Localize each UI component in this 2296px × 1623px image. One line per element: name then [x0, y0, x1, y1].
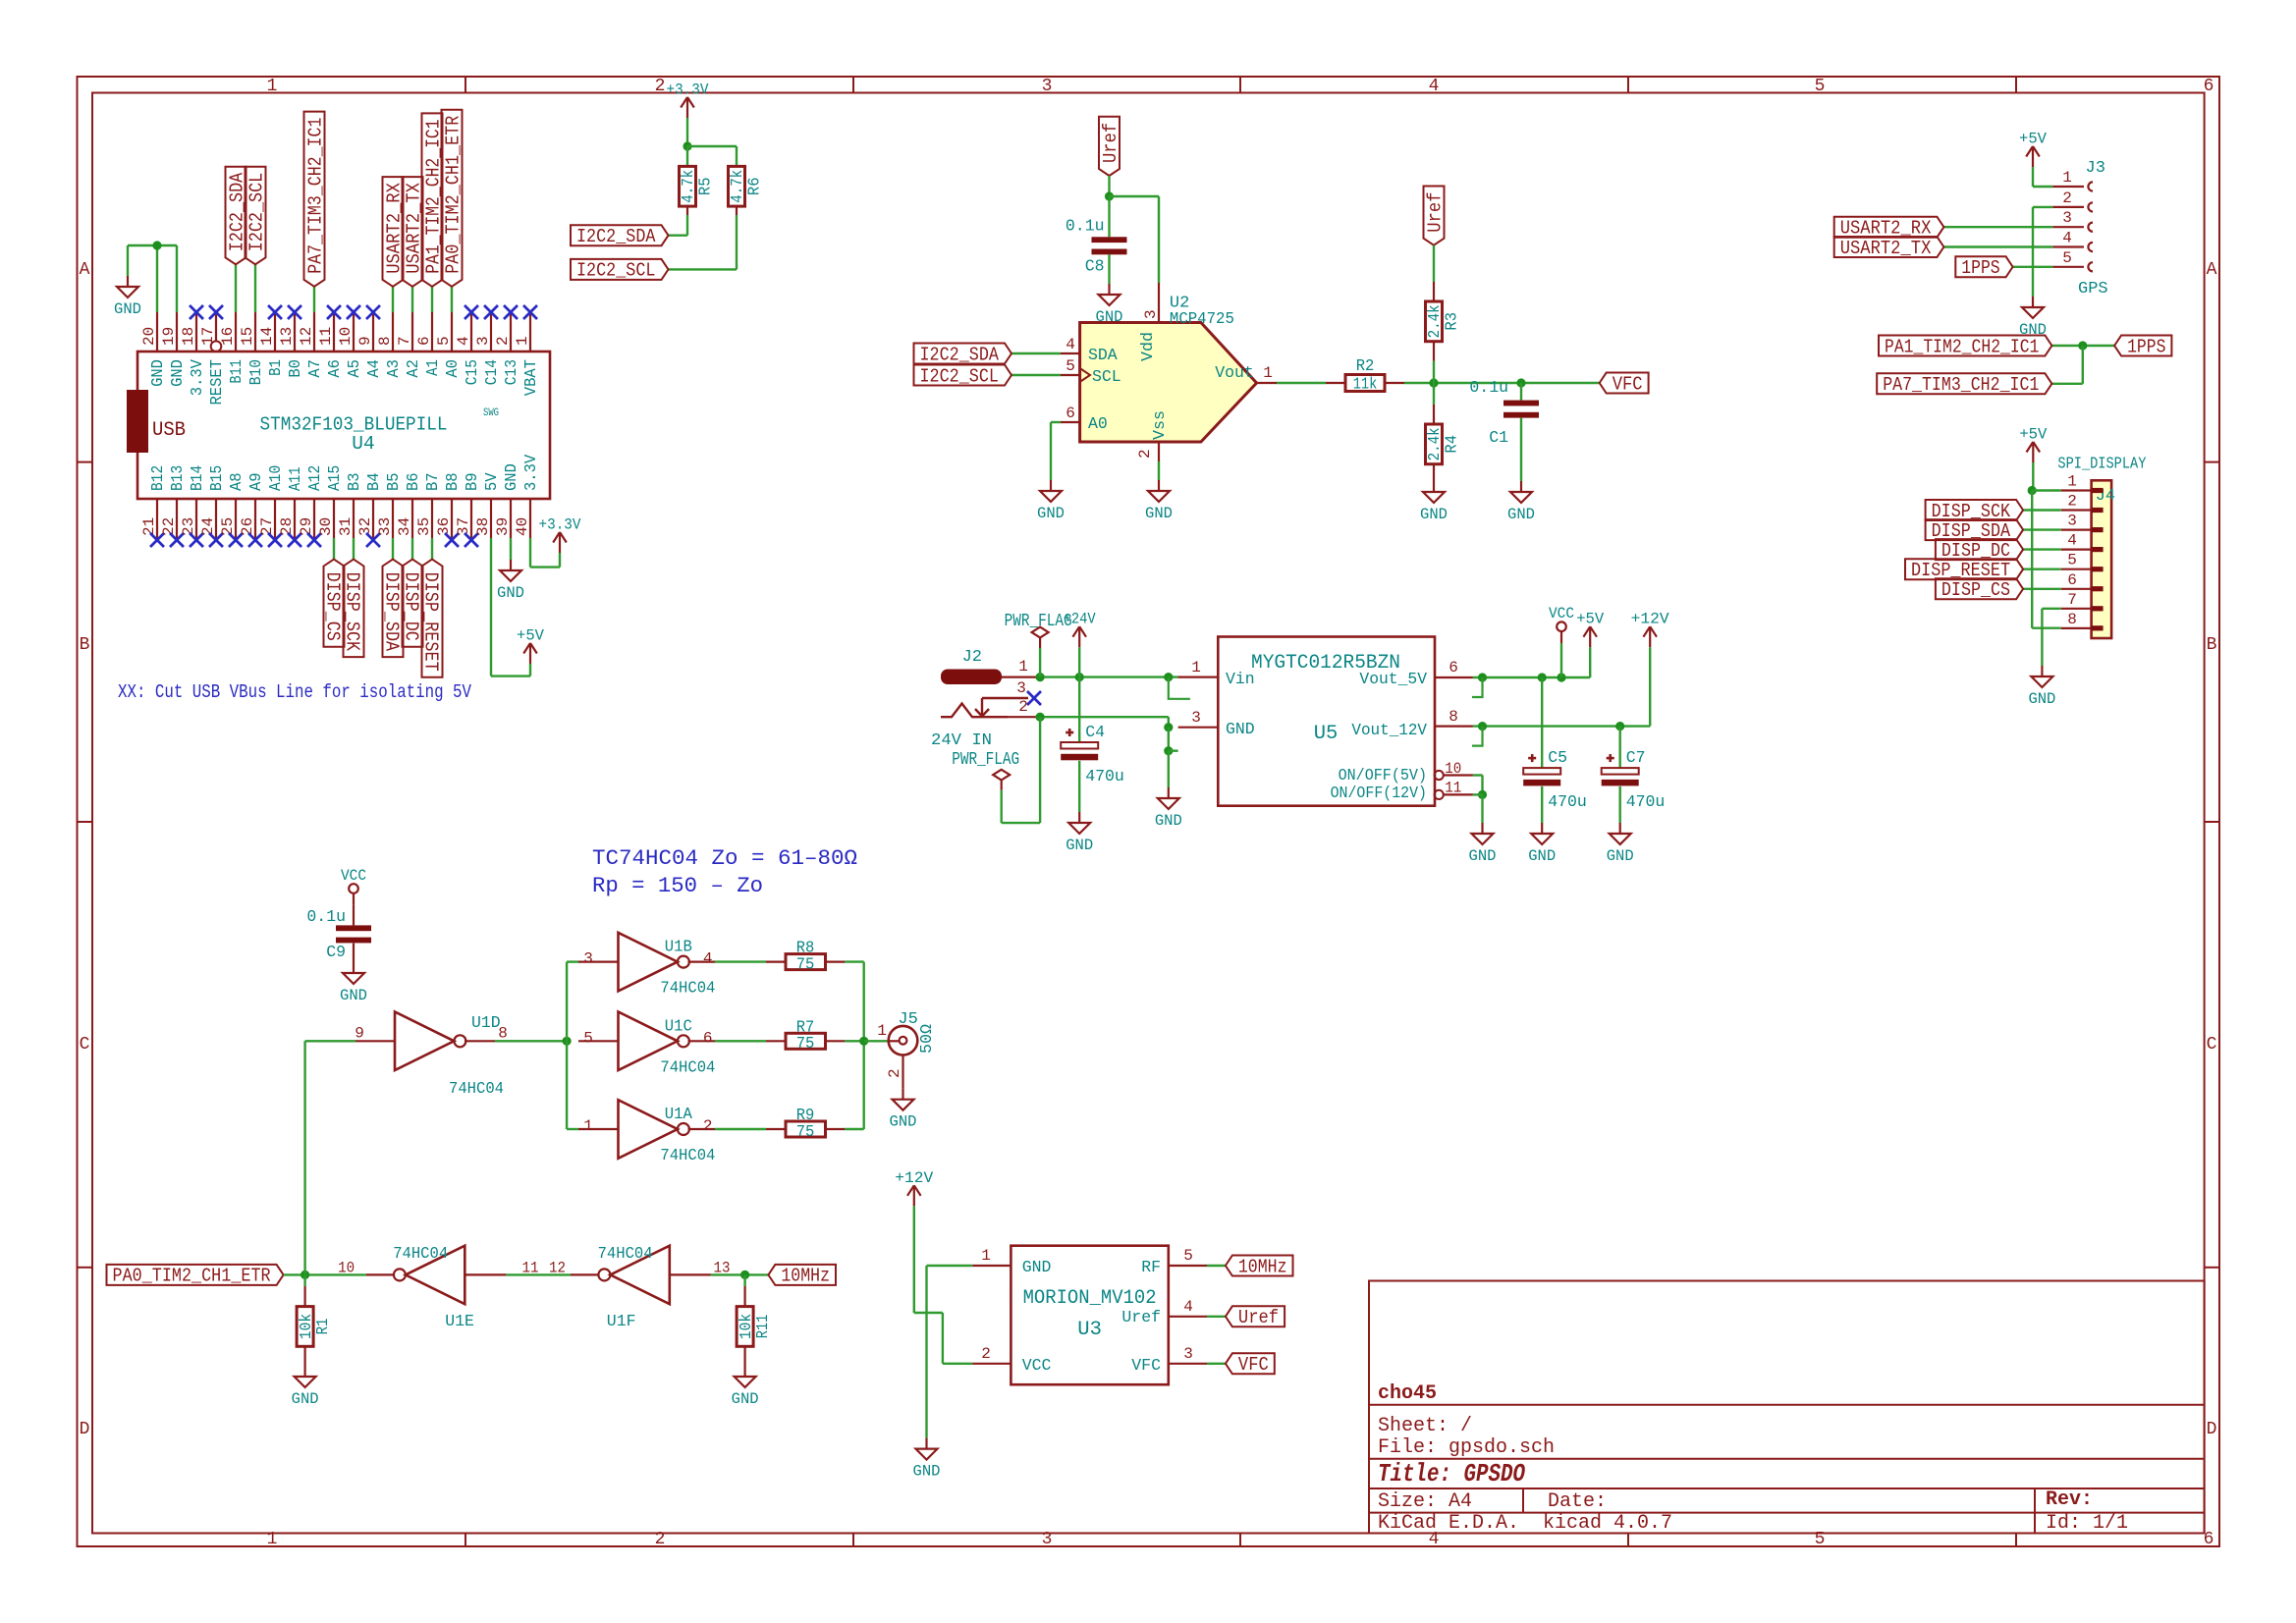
svg-text:C13: C13 [502, 359, 520, 385]
svg-text:USART2_TX: USART2_TX [1840, 238, 1932, 259]
svg-text:18: 18 [180, 327, 197, 346]
svg-text:Uref: Uref [1238, 1307, 1279, 1328]
svg-text:GND: GND [1037, 505, 1065, 522]
svg-text:Uref: Uref [1424, 192, 1446, 233]
svg-text:75: 75 [796, 954, 815, 973]
svg-text:3: 3 [1191, 709, 1201, 727]
svg-text:1PPS: 1PPS [1961, 257, 1999, 279]
svg-text:5: 5 [2067, 552, 2077, 569]
svg-text:Vout: Vout [1215, 363, 1254, 382]
svg-text:C1: C1 [1489, 428, 1508, 447]
svg-text:DISP_CS: DISP_CS [322, 572, 344, 641]
svg-text:A12: A12 [305, 465, 324, 491]
svg-text:+3.3V: +3.3V [539, 516, 582, 534]
svg-text:PWR_FLAG: PWR_FLAG [952, 750, 1019, 770]
svg-text:9: 9 [355, 1024, 364, 1042]
svg-text:25: 25 [219, 517, 237, 536]
svg-text:C: C [80, 1035, 90, 1055]
svg-text:20: 20 [140, 327, 158, 346]
svg-text:GND: GND [1022, 1258, 1052, 1276]
svg-text:3: 3 [474, 336, 492, 346]
svg-text:1PPS: 1PPS [2127, 336, 2165, 357]
svg-text:4: 4 [455, 336, 472, 346]
svg-text:A: A [2207, 260, 2217, 280]
svg-text:GND: GND [732, 1390, 759, 1408]
svg-text:3: 3 [1016, 679, 1026, 697]
svg-text:1: 1 [1263, 364, 1273, 382]
svg-text:4: 4 [1183, 1298, 1193, 1316]
svg-text:5: 5 [2062, 249, 2072, 267]
svg-text:C4: C4 [1085, 723, 1105, 741]
svg-text:B12: B12 [148, 465, 167, 491]
svg-text:17: 17 [199, 327, 217, 346]
svg-text:PWR_FLAG: PWR_FLAG [1005, 612, 1072, 631]
svg-text:U1C: U1C [665, 1016, 692, 1035]
svg-text:B4: B4 [364, 472, 383, 491]
svg-text:SCL: SCL [1092, 367, 1121, 386]
svg-text:A7: A7 [305, 359, 324, 378]
svg-text:11: 11 [317, 327, 335, 346]
svg-text:U1A: U1A [665, 1105, 692, 1123]
svg-text:R6: R6 [745, 178, 764, 196]
svg-text:16: 16 [219, 327, 237, 346]
svg-text:2: 2 [2067, 493, 2077, 511]
svg-text:+3.3V: +3.3V [667, 81, 710, 99]
svg-text:DISP_DC: DISP_DC [401, 572, 422, 641]
svg-text:GND: GND [340, 987, 367, 1004]
svg-text:5: 5 [583, 1029, 593, 1047]
svg-text:B10: B10 [246, 359, 265, 385]
svg-text:A0: A0 [1088, 414, 1108, 433]
svg-text:A11: A11 [286, 466, 304, 491]
svg-text:37: 37 [455, 517, 472, 536]
svg-text:VFC: VFC [1131, 1356, 1161, 1375]
svg-text:+12V: +12V [1631, 611, 1670, 628]
svg-text:+5V: +5V [2019, 131, 2048, 148]
svg-text:Rev:: Rev: [2046, 1488, 2093, 1511]
svg-text:VFC: VFC [1613, 373, 1643, 395]
svg-text:32: 32 [356, 517, 374, 536]
svg-text:10MHz: 10MHz [781, 1266, 830, 1287]
svg-text:4: 4 [703, 950, 713, 968]
svg-text:U1D: U1D [471, 1013, 501, 1032]
svg-text:2.4k: 2.4k [1425, 427, 1444, 460]
svg-text:10: 10 [337, 327, 355, 346]
svg-text:VCC: VCC [1549, 605, 1574, 622]
svg-text:C: C [2207, 1035, 2217, 1055]
svg-text:50Ω: 50Ω [917, 1024, 936, 1054]
svg-text:7: 7 [396, 336, 413, 346]
svg-text:R4: R4 [1443, 435, 1461, 454]
svg-text:U4: U4 [352, 433, 374, 455]
svg-text:4: 4 [1066, 336, 1075, 353]
svg-text:GND: GND [913, 1463, 941, 1481]
svg-text:74HC04: 74HC04 [660, 979, 715, 998]
svg-text:74HC04: 74HC04 [393, 1244, 448, 1263]
svg-text:6: 6 [1066, 405, 1075, 422]
svg-text:2: 2 [2062, 189, 2072, 207]
svg-text:GND: GND [148, 359, 167, 387]
svg-text:34: 34 [396, 517, 413, 536]
svg-text:ON/OFF(12V): ON/OFF(12V) [1331, 784, 1427, 802]
svg-text:Vdd: Vdd [1138, 332, 1157, 361]
svg-text:I2C2_SCL: I2C2_SCL [246, 173, 267, 252]
svg-text:27: 27 [258, 517, 276, 536]
svg-text:8: 8 [1449, 708, 1458, 726]
svg-text:C8: C8 [1085, 256, 1105, 275]
svg-text:MCP4725: MCP4725 [1170, 310, 1234, 329]
svg-text:GND: GND [2028, 690, 2055, 708]
svg-text:U3: U3 [1077, 1319, 1102, 1341]
svg-text:75: 75 [796, 1122, 815, 1141]
svg-text:C7: C7 [1626, 748, 1646, 767]
svg-text:12: 12 [298, 327, 315, 346]
svg-text:10: 10 [338, 1259, 355, 1276]
svg-text:6: 6 [2067, 571, 2077, 589]
svg-text:21: 21 [140, 517, 158, 536]
svg-text:GND: GND [1528, 847, 1556, 865]
svg-text:74HC04: 74HC04 [449, 1079, 504, 1098]
svg-text:A2: A2 [404, 359, 422, 378]
svg-text:3: 3 [1142, 309, 1160, 319]
svg-text:B5: B5 [384, 472, 403, 491]
svg-text:GND: GND [1420, 506, 1448, 523]
svg-text:40: 40 [514, 517, 531, 536]
svg-text:0.1u: 0.1u [1469, 378, 1508, 397]
svg-text:+12V: +12V [895, 1169, 934, 1187]
svg-text:74HC04: 74HC04 [660, 1146, 715, 1164]
svg-text:2: 2 [1136, 449, 1154, 459]
svg-text:3: 3 [2067, 513, 2077, 530]
svg-text:B9: B9 [463, 472, 481, 491]
svg-text:35: 35 [415, 517, 433, 536]
svg-text:I2C2_SCL: I2C2_SCL [576, 260, 656, 282]
svg-text:I2C2_SCL: I2C2_SCL [920, 365, 1000, 387]
svg-text:XX: Cut USB VBus Line for isol: XX: Cut USB VBus Line for isolating 5V [118, 681, 471, 703]
svg-text:36: 36 [435, 517, 453, 536]
svg-text:DISP_SDA: DISP_SDA [381, 572, 403, 652]
svg-text:U1E: U1E [445, 1312, 474, 1330]
svg-text:B0: B0 [286, 359, 304, 378]
svg-text:Date:: Date: [1548, 1490, 1607, 1513]
svg-text:PA0_TIM2_CH1_ETR: PA0_TIM2_CH1_ETR [113, 1266, 271, 1287]
svg-text:VCC: VCC [1022, 1356, 1052, 1375]
svg-text:3: 3 [2062, 209, 2072, 227]
svg-text:1: 1 [2067, 473, 2077, 491]
svg-text:15: 15 [239, 327, 256, 346]
svg-text:cho45: cho45 [1378, 1382, 1437, 1405]
svg-text:19: 19 [160, 327, 178, 346]
svg-text:R1: R1 [313, 1318, 332, 1334]
svg-text:28: 28 [278, 517, 296, 536]
svg-text:RF: RF [1141, 1258, 1161, 1276]
svg-text:R2: R2 [1356, 356, 1375, 375]
svg-text:23: 23 [180, 517, 197, 536]
svg-text:B11: B11 [227, 359, 246, 384]
svg-text:Uref: Uref [1121, 1308, 1161, 1326]
svg-text:MORION_MV102: MORION_MV102 [1023, 1287, 1157, 1310]
svg-text:9: 9 [356, 336, 374, 346]
svg-text:1: 1 [1191, 659, 1201, 676]
svg-text:A0: A0 [443, 359, 462, 378]
svg-text:D: D [2207, 1420, 2217, 1439]
svg-text:A15: A15 [325, 465, 344, 491]
svg-text:Vss: Vss [1150, 410, 1169, 440]
svg-text:470u: 470u [1626, 792, 1666, 811]
svg-text:A10: A10 [266, 465, 285, 491]
svg-text:Uref: Uref [1100, 123, 1121, 163]
svg-text:5: 5 [1066, 357, 1075, 375]
svg-text:USB: USB [152, 419, 186, 442]
svg-text:GND: GND [1226, 720, 1255, 738]
svg-text:A3: A3 [384, 359, 403, 378]
svg-text:2: 2 [655, 1530, 666, 1549]
svg-text:1: 1 [981, 1247, 991, 1265]
svg-text:2: 2 [1018, 698, 1028, 716]
svg-text:GND: GND [1096, 308, 1123, 326]
svg-text:A8: A8 [227, 472, 246, 491]
svg-text:470u: 470u [1548, 792, 1587, 811]
svg-text:DISP_RESET: DISP_RESET [420, 572, 442, 672]
svg-text:C5: C5 [1548, 748, 1567, 767]
svg-text:2.4k: 2.4k [1425, 304, 1444, 338]
svg-text:I2C2_SDA: I2C2_SDA [920, 344, 1000, 365]
svg-text:R3: R3 [1443, 312, 1461, 331]
svg-text:Sheet: /: Sheet: / [1378, 1415, 1472, 1437]
svg-text:10k: 10k [737, 1314, 755, 1339]
svg-text:J2: J2 [962, 648, 982, 667]
svg-text:2: 2 [703, 1117, 713, 1135]
svg-text:C14: C14 [482, 359, 501, 385]
svg-text:Rp = 150 – Zo: Rp = 150 – Zo [592, 874, 763, 898]
svg-text:5V: 5V [482, 472, 501, 491]
svg-text:PA7_TIM3_CH2_IC1: PA7_TIM3_CH2_IC1 [1883, 374, 2039, 396]
svg-text:B8: B8 [443, 472, 462, 491]
svg-text:24: 24 [199, 517, 217, 536]
svg-text:R11: R11 [753, 1315, 772, 1339]
svg-text:12: 12 [549, 1259, 566, 1276]
svg-text:DISP_CS: DISP_CS [1941, 579, 2010, 601]
svg-text:26: 26 [239, 517, 256, 536]
svg-text:GND: GND [502, 463, 520, 491]
svg-text:24V IN: 24V IN [931, 730, 992, 749]
svg-text:13: 13 [278, 327, 296, 346]
svg-text:Vin: Vin [1226, 670, 1255, 688]
svg-text:GND: GND [292, 1390, 319, 1408]
svg-text:Id: 1/1: Id: 1/1 [2046, 1512, 2128, 1535]
svg-text:Vout_12V: Vout_12V [1351, 721, 1427, 739]
svg-text:1: 1 [514, 336, 531, 346]
svg-text:0.1u: 0.1u [1066, 216, 1105, 235]
svg-text:6: 6 [703, 1029, 713, 1047]
svg-text:PA7_TIM3_CH2_IC1: PA7_TIM3_CH2_IC1 [304, 118, 326, 274]
svg-text:B14: B14 [188, 465, 206, 491]
svg-text:A9: A9 [246, 472, 265, 491]
svg-text:I2C2_SDA: I2C2_SDA [576, 226, 656, 247]
svg-text:22: 22 [160, 517, 178, 536]
svg-text:3: 3 [1042, 77, 1053, 96]
svg-text:SDA: SDA [1088, 346, 1118, 364]
svg-text:3: 3 [1183, 1345, 1193, 1363]
svg-text:+5V: +5V [2019, 426, 2048, 444]
svg-text:38: 38 [474, 517, 492, 536]
svg-text:GPS: GPS [2078, 280, 2108, 298]
svg-text:B13: B13 [168, 465, 187, 491]
svg-text:Size: A4: Size: A4 [1378, 1490, 1472, 1513]
svg-text:A6: A6 [325, 359, 344, 378]
svg-text:ON/OFF(5V): ON/OFF(5V) [1339, 766, 1427, 784]
svg-text:3: 3 [1042, 1530, 1053, 1549]
svg-text:6: 6 [1449, 659, 1458, 676]
svg-text:STM32F103_BLUEPILL: STM32F103_BLUEPILL [260, 413, 448, 435]
svg-text:GND: GND [1507, 506, 1535, 523]
svg-text:4: 4 [2067, 532, 2077, 550]
svg-text:TC74HC04 Zo = 61–80Ω: TC74HC04 Zo = 61–80Ω [592, 846, 857, 871]
svg-text:30: 30 [317, 517, 335, 536]
svg-text:14: 14 [258, 327, 276, 346]
svg-text:74HC04: 74HC04 [598, 1244, 653, 1263]
svg-text:1: 1 [267, 77, 278, 96]
svg-text:2: 2 [655, 77, 666, 96]
svg-text:2: 2 [494, 336, 512, 346]
svg-text:0.1u: 0.1u [306, 907, 346, 926]
svg-text:5: 5 [435, 336, 453, 346]
svg-text:J3: J3 [2086, 159, 2105, 178]
svg-text:1: 1 [2062, 169, 2072, 187]
svg-text:+24V: +24V [1064, 611, 1097, 628]
svg-text:A: A [80, 260, 90, 280]
svg-text:8: 8 [376, 336, 394, 346]
svg-text:11: 11 [1445, 780, 1461, 797]
svg-text:6: 6 [2204, 77, 2214, 96]
svg-text:8: 8 [2067, 611, 2077, 628]
svg-text:3.3V: 3.3V [521, 455, 540, 491]
svg-text:4: 4 [2062, 230, 2072, 247]
svg-text:31: 31 [337, 517, 355, 536]
svg-text:39: 39 [494, 517, 512, 536]
svg-text:File: gpsdo.sch: File: gpsdo.sch [1378, 1436, 1555, 1459]
svg-text:VFC: VFC [1238, 1354, 1269, 1376]
svg-text:1: 1 [1018, 658, 1028, 676]
svg-text:B6: B6 [404, 472, 422, 491]
svg-text:75: 75 [796, 1034, 815, 1053]
svg-text:B3: B3 [345, 472, 363, 491]
svg-text:10k: 10k [297, 1314, 315, 1339]
svg-text:GND: GND [497, 584, 524, 602]
svg-text:2: 2 [886, 1068, 903, 1078]
svg-text:2: 2 [981, 1345, 991, 1363]
svg-text:GND: GND [1145, 505, 1173, 522]
svg-text:A4: A4 [364, 359, 383, 378]
svg-text:Title: GPSDO: Title: GPSDO [1378, 1459, 1525, 1488]
svg-text:74HC04: 74HC04 [660, 1057, 715, 1076]
svg-text:A1: A1 [423, 359, 442, 376]
svg-text:SWG: SWG [483, 407, 499, 419]
svg-text:33: 33 [376, 517, 394, 536]
svg-text:3.3V: 3.3V [188, 359, 206, 396]
svg-text:B: B [80, 635, 90, 655]
svg-text:C9: C9 [326, 943, 346, 961]
svg-text:1: 1 [583, 1117, 593, 1135]
svg-text:U1B: U1B [665, 938, 692, 956]
svg-text:B15: B15 [207, 465, 226, 491]
svg-text:DISP_SCK: DISP_SCK [342, 572, 363, 652]
svg-text:10: 10 [1445, 760, 1461, 778]
svg-text:5: 5 [1815, 77, 1826, 96]
svg-text:GND: GND [168, 359, 187, 387]
svg-text:RESET: RESET [207, 359, 226, 406]
svg-text:GND: GND [114, 300, 141, 318]
svg-text:C15: C15 [463, 359, 481, 385]
svg-text:8: 8 [498, 1024, 508, 1042]
svg-text:VCC: VCC [341, 867, 366, 885]
svg-text:U1F: U1F [607, 1312, 636, 1330]
svg-text:29: 29 [298, 517, 315, 536]
svg-text:U5: U5 [1314, 723, 1339, 745]
svg-text:KiCad E.D.A. kicad 4.0.7: KiCad E.D.A. kicad 4.0.7 [1378, 1512, 1672, 1535]
svg-text:B: B [2207, 635, 2217, 655]
svg-text:5: 5 [1183, 1247, 1193, 1265]
svg-text:+5V: +5V [517, 627, 545, 645]
svg-text:SPI_DISPLAY: SPI_DISPLAY [2057, 456, 2146, 474]
svg-text:GND: GND [1469, 847, 1497, 865]
svg-text:GND: GND [1155, 812, 1182, 830]
svg-text:VBAT: VBAT [521, 359, 540, 396]
svg-text:4.7k: 4.7k [679, 170, 697, 203]
svg-text:GND: GND [890, 1113, 917, 1131]
svg-text:11k: 11k [1353, 375, 1378, 394]
svg-text:A5: A5 [345, 359, 363, 378]
svg-text:1: 1 [267, 1530, 278, 1549]
svg-text:Vout_5V: Vout_5V [1359, 670, 1427, 688]
svg-text:GND: GND [1066, 837, 1093, 854]
svg-text:PA0_TIM2_CH1_ETR: PA0_TIM2_CH1_ETR [442, 116, 464, 274]
svg-text:470u: 470u [1085, 767, 1124, 785]
svg-text:1: 1 [877, 1022, 887, 1040]
svg-text:GND: GND [1607, 847, 1634, 865]
svg-text:10MHz: 10MHz [1238, 1256, 1287, 1277]
svg-text:J5: J5 [898, 1010, 917, 1029]
svg-text:D: D [80, 1420, 90, 1439]
svg-text:R5: R5 [696, 178, 715, 196]
svg-text:+5V: +5V [1576, 611, 1605, 628]
svg-text:6: 6 [415, 336, 433, 346]
svg-text:B1: B1 [266, 359, 285, 376]
svg-text:7: 7 [2067, 591, 2077, 609]
svg-text:PA1_TIM2_CH2_IC1: PA1_TIM2_CH2_IC1 [1885, 336, 2039, 357]
svg-text:3: 3 [583, 950, 593, 968]
svg-text:4: 4 [1429, 77, 1440, 96]
svg-text:B7: B7 [423, 472, 442, 491]
svg-text:4.7k: 4.7k [728, 170, 746, 203]
